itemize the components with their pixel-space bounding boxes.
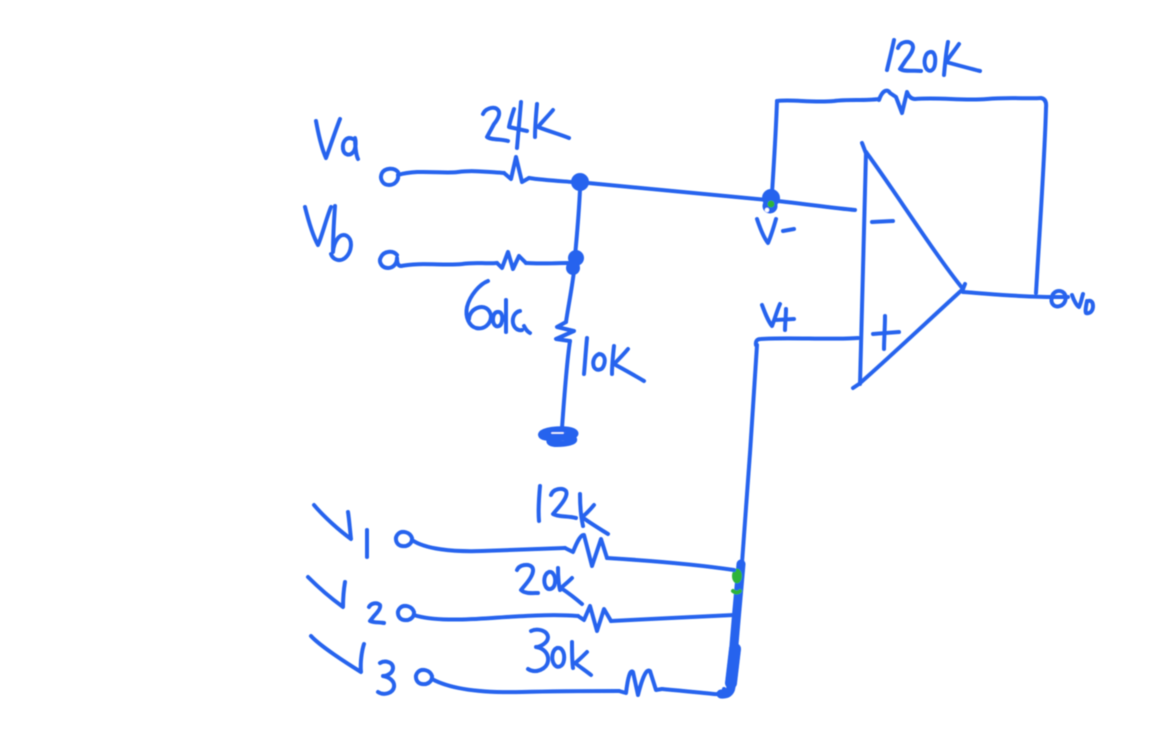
label 24K xyxy=(483,102,569,148)
label 120K xyxy=(887,40,980,75)
resistor R6 20k xyxy=(578,606,611,631)
node V- junction xyxy=(762,189,780,214)
wire V2 to 20k xyxy=(414,615,578,620)
op-amp plus input symbol xyxy=(873,316,899,349)
node A junction dot xyxy=(571,173,589,191)
terminal V3 xyxy=(416,670,432,684)
label vo xyxy=(1072,294,1093,313)
resistor R5 12k xyxy=(565,535,607,566)
terminal Va xyxy=(381,169,398,185)
label V+ xyxy=(762,304,794,330)
wire V+ input horizontal xyxy=(756,338,858,345)
wire feedback top right xyxy=(915,98,1046,108)
label Va xyxy=(316,119,358,159)
wire 60k to node B xyxy=(526,261,568,265)
wire 12k to node C xyxy=(607,558,734,570)
wire V1 to 12k xyxy=(412,540,565,551)
label V2 xyxy=(308,577,384,623)
label V- xyxy=(757,219,794,243)
label 10K xyxy=(584,338,644,381)
wire node A to node B xyxy=(575,190,580,256)
green dot at node C xyxy=(732,569,742,593)
wire 30k to bus bottom xyxy=(662,689,724,694)
wire node A to V- input xyxy=(588,183,855,210)
op-amp minus input symbol xyxy=(872,221,893,222)
terminal V2 xyxy=(398,606,414,620)
label 30k xyxy=(528,630,591,675)
wire 24K to node A xyxy=(529,178,572,182)
label Vb xyxy=(305,206,351,260)
wire node B to 10K xyxy=(566,271,574,322)
wire feedback left vertical xyxy=(772,101,777,193)
wire feedback top left xyxy=(777,99,879,102)
wire Vb to 60k xyxy=(401,263,497,266)
wire V3 to 30k xyxy=(432,679,619,692)
wire V+ vertical to summing node xyxy=(742,345,757,563)
wire Va to 24K xyxy=(398,171,504,175)
resistor R2 60k xyxy=(497,252,526,269)
label V3 xyxy=(311,636,394,694)
green dot at node V- xyxy=(768,201,775,208)
wire 20k to bus xyxy=(611,615,734,621)
terminal V1 xyxy=(396,532,412,546)
op-amp U1 triangle xyxy=(853,143,965,388)
wire op-amp output xyxy=(963,292,1050,297)
label V1 xyxy=(314,505,367,557)
label 12k xyxy=(539,486,608,534)
terminal Vb xyxy=(380,252,401,268)
resistor R3 10K xyxy=(556,322,574,341)
label 60k xyxy=(466,281,530,333)
node B junction dot xyxy=(566,250,584,275)
resistor R7 30k xyxy=(619,671,662,696)
bus thick vertical (overdrawn) xyxy=(721,564,741,694)
resistor R1 24K xyxy=(504,157,529,182)
terminal vo xyxy=(1051,291,1068,306)
wire 10K to ground xyxy=(562,341,570,428)
ground xyxy=(541,429,575,444)
label 20k xyxy=(517,565,582,604)
resistor R4 120K xyxy=(879,91,915,113)
wire feedback right vertical xyxy=(1036,108,1046,293)
